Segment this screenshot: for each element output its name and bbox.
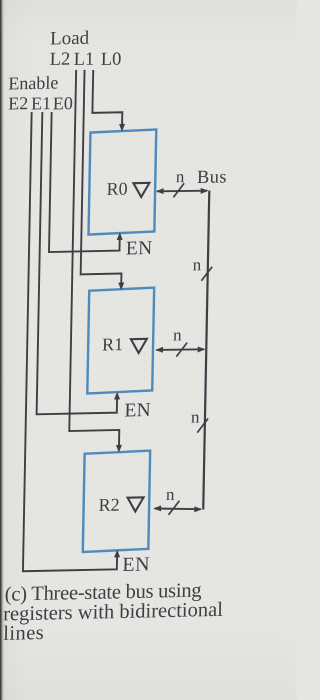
svg-text:EN: EN	[124, 400, 151, 422]
slash n R0	[173, 183, 184, 197]
bidirectional arrow R0	[157, 190, 207, 192]
wire E0 enable	[49, 111, 122, 252]
clock triangle R0	[133, 183, 149, 197]
photo dark left edge	[0, 0, 6, 700]
wire L1 load	[80, 69, 125, 284]
slash n bus lower	[197, 419, 208, 433]
register R0 box	[89, 129, 157, 234]
slash n bus upper	[201, 267, 212, 281]
svg-text:E0: E0	[53, 93, 73, 113]
wire E1 enable	[37, 110, 123, 414]
svg-text:E1: E1	[31, 93, 51, 113]
svg-text:Enable: Enable	[8, 72, 58, 93]
svg-text:EN: EN	[122, 553, 150, 576]
svg-text:lines: lines	[3, 622, 44, 645]
wire L2 load	[69, 69, 126, 447]
clock triangle R1	[131, 339, 147, 353]
svg-text:n: n	[166, 485, 175, 504]
svg-text:n: n	[193, 255, 202, 274]
wire E2 enable	[23, 110, 126, 571]
svg-text:Load: Load	[50, 28, 90, 50]
clock triangle R2	[127, 497, 143, 511]
svg-text:L1: L1	[74, 50, 95, 70]
wire L0 load	[92, 69, 123, 125]
svg-text:R2: R2	[98, 495, 119, 515]
slash n R1	[176, 343, 187, 357]
slash n R2	[169, 501, 180, 515]
svg-text:n: n	[173, 325, 182, 344]
svg-text:E2: E2	[8, 93, 28, 113]
svg-text:n: n	[191, 407, 200, 426]
bidirectional arrow R2	[154, 508, 201, 511]
svg-text:L0: L0	[101, 50, 122, 70]
bidirectional arrow R1	[156, 349, 204, 350]
svg-text:R0: R0	[106, 179, 127, 199]
register R1 box	[87, 288, 154, 394]
register R2 box	[83, 451, 150, 552]
bus line	[203, 191, 209, 510]
svg-text:R1: R1	[102, 334, 123, 354]
svg-text:n: n	[176, 167, 185, 186]
svg-text:Bus: Bus	[197, 167, 227, 188]
svg-text:EN: EN	[126, 238, 153, 260]
svg-text:L2: L2	[50, 50, 71, 70]
